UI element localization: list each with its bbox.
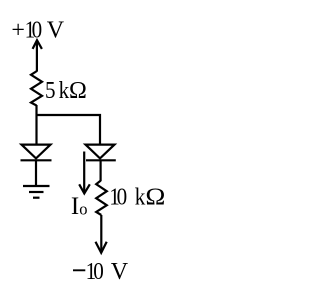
svg-text:Ω: Ω xyxy=(145,185,165,211)
svg-text:0: 0 xyxy=(32,16,43,43)
svg-text:0: 0 xyxy=(93,258,104,285)
svg-text:V: V xyxy=(47,18,65,44)
svg-text:5: 5 xyxy=(45,77,56,104)
svg-text:o: o xyxy=(79,200,87,219)
svg-text:k: k xyxy=(135,183,146,210)
svg-text:0: 0 xyxy=(117,183,128,210)
svg-text:V: V xyxy=(111,259,129,285)
svg-text:Ω: Ω xyxy=(69,78,87,104)
svg-text:I: I xyxy=(71,193,79,220)
svg-text:+: + xyxy=(11,18,25,44)
